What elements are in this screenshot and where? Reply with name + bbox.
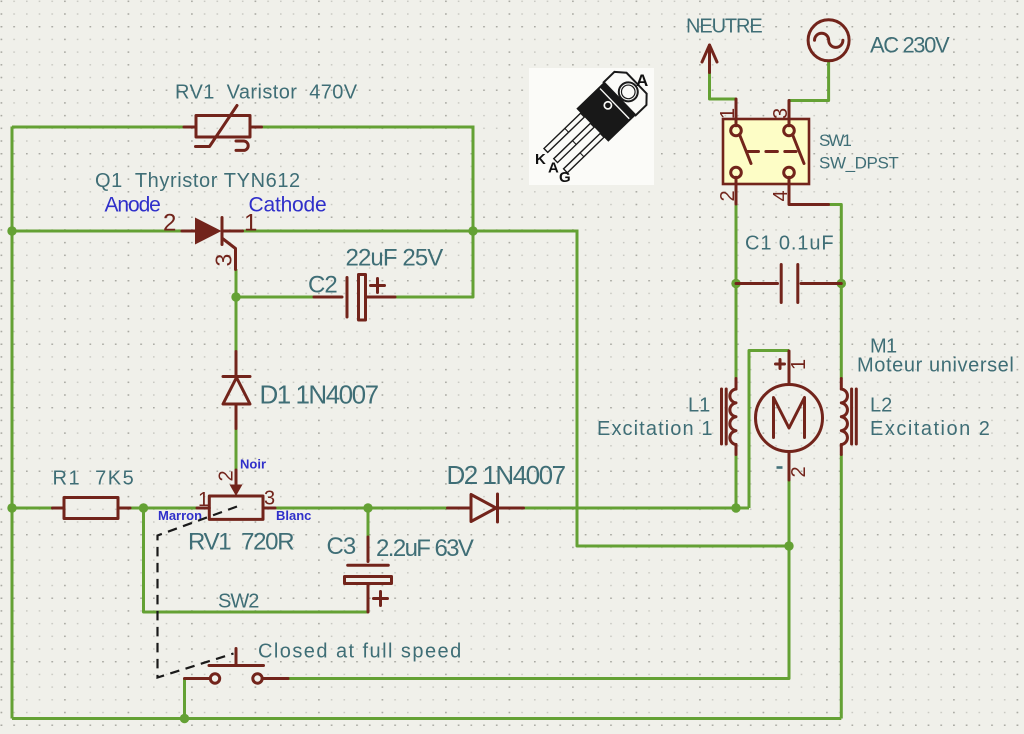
junction (789,546): [784, 541, 793, 550]
svg-text:RV1 720R: RV1 720R: [188, 529, 294, 556]
junction (368,508): [363, 503, 372, 512]
svg-text:3: 3: [770, 108, 792, 119]
wire varistor drop: [472, 126, 475, 232]
svg-text:SW1: SW1: [819, 131, 851, 150]
svg-text:Marron: Marron: [158, 508, 202, 523]
junction (736,508): [731, 503, 740, 512]
svg-text:2: 2: [788, 466, 810, 477]
inductor L2: [841, 379, 856, 455]
wire C3 top: [367, 508, 370, 537]
inductor L1: [722, 379, 737, 455]
wire AC down: [789, 61, 829, 101]
svg-text:R1 7K5: R1 7K5: [53, 468, 136, 490]
svg-text:1: 1: [244, 210, 257, 237]
svg-text:2: 2: [717, 190, 739, 201]
svg-text:4: 4: [770, 190, 792, 201]
wire cathode: [242, 230, 579, 233]
wire SW1 pin4 to L2: [829, 205, 842, 379]
capacitor C2: [314, 275, 395, 321]
wire SW2 left drop: [183, 679, 186, 719]
junction (143.5,508): [139, 503, 148, 512]
svg-text:Noir: Noir: [240, 457, 266, 472]
wire varistor right: [261, 126, 473, 129]
svg-text:AC 230V: AC 230V: [870, 33, 950, 58]
wire cathode drop to motor: [577, 231, 789, 546]
wire varistor left: [12, 126, 184, 129]
junction (236,297): [231, 292, 240, 301]
svg-text:Excitation 1: Excitation 1: [597, 418, 714, 440]
dashed mechanical linkage: [158, 507, 238, 678]
svg-text:NEUTRE: NEUTRE: [686, 16, 762, 38]
svg-text:L1: L1: [688, 395, 710, 417]
wire L1 bottom: [735, 455, 738, 509]
wire SW2 right to motor: [288, 546, 789, 679]
svg-text:Anode: Anode: [105, 194, 161, 217]
svg-text:Closed at full speed: Closed at full speed: [258, 641, 463, 663]
junction (736,283.5): [731, 279, 740, 288]
svg-text:C3: C3: [327, 533, 356, 560]
TO-220 package photo: [529, 66, 654, 186]
varistor RV1: [184, 106, 262, 151]
wire motor plus feed: [749, 351, 789, 509]
svg-text:2.2uF 63V: 2.2uF 63V: [376, 535, 474, 562]
wire R1 to pot: [130, 507, 197, 510]
switch SW2 push button: [185, 649, 289, 684]
wire D1 to pot arrow: [235, 429, 238, 471]
svg-text:2: 2: [216, 470, 238, 481]
svg-text:1: 1: [788, 359, 810, 370]
wire L2 bottom to bottom rail: [840, 455, 843, 719]
junction (184.5,718.5): [180, 714, 189, 723]
wire anode: [12, 230, 182, 233]
potentiometer RV1 720R: [197, 470, 275, 519]
wire D2 to L1 junction: [524, 507, 750, 510]
wire gate to D1: [235, 269, 238, 352]
svg-text:22uF 25V: 22uF 25V: [346, 245, 444, 272]
svg-text:D1 1N4007: D1 1N4007: [260, 380, 379, 410]
svg-text:Excitation 2: Excitation 2: [870, 418, 991, 440]
svg-text:2: 2: [163, 210, 176, 237]
svg-text:D2 1N4007: D2 1N4007: [447, 460, 566, 490]
resistor R1: [53, 498, 131, 519]
power flag NEUTRE: [702, 45, 717, 73]
motor M1: [756, 351, 823, 480]
junction (841.3,283.5): [837, 279, 846, 288]
wire C2 right riser: [395, 231, 473, 297]
svg-text:3: 3: [264, 488, 275, 510]
svg-text:A: A: [548, 160, 559, 177]
svg-text:SW_DPST: SW_DPST: [819, 154, 898, 173]
junction (12,508): [7, 503, 16, 512]
capacitor C1: [736, 265, 841, 303]
svg-text:C1 0.1uF: C1 0.1uF: [745, 233, 834, 255]
svg-text:C2: C2: [308, 272, 337, 299]
diode D2: [448, 494, 524, 522]
wire motor pin2: [788, 480, 791, 546]
wire pot to D2: [275, 507, 448, 510]
junction (12,231): [7, 226, 16, 235]
svg-text:3: 3: [211, 254, 237, 267]
svg-text:K: K: [535, 151, 546, 168]
junction (473,231): [468, 226, 477, 235]
svg-text:Cathode: Cathode: [249, 194, 327, 217]
svg-text:A: A: [636, 71, 648, 90]
wire C3 bottom run: [144, 508, 369, 612]
thyristor Q1: [182, 218, 243, 270]
svg-text:1: 1: [717, 108, 739, 119]
wire C2 left: [236, 296, 314, 299]
wire main left: [12, 507, 53, 510]
wire NEUTRE down: [710, 73, 737, 100]
svg-text:Moteur universel: Moteur universel: [857, 355, 1014, 377]
svg-text:SW2: SW2: [218, 591, 259, 613]
wire left rail: [11, 127, 14, 719]
switch SW1 DPST: [723, 99, 829, 205]
wire bottom rail: [12, 717, 841, 720]
svg-text:Blanc: Blanc: [276, 508, 311, 523]
diode D1: [223, 352, 250, 429]
svg-text:Q1 Thyristor TYN612: Q1 Thyristor TYN612: [95, 170, 301, 192]
wire SW1 pin2 to L1: [735, 204, 738, 379]
svg-text:RV1 Varistor 470V: RV1 Varistor 470V: [175, 82, 358, 104]
svg-text:G: G: [559, 169, 571, 186]
svg-text:L2: L2: [870, 395, 892, 417]
AC source: [808, 20, 849, 61]
capacitor C3: [345, 537, 392, 612]
